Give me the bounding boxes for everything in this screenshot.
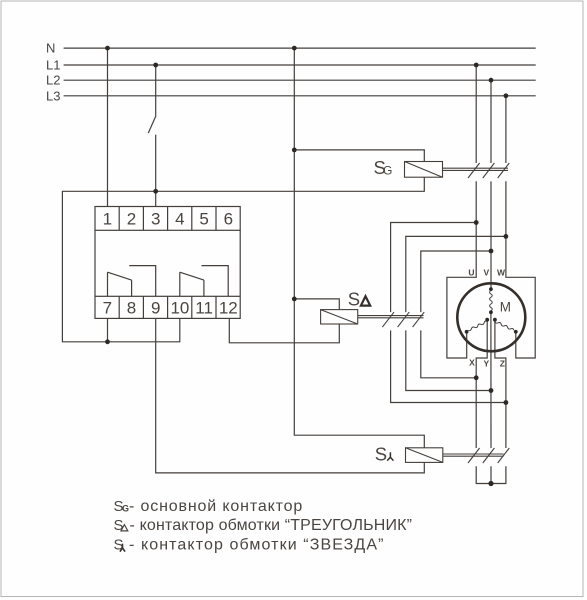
wire S-lambda coil bottom to terminal 9 (156, 318, 425, 473)
node winding W outer (514, 330, 518, 334)
node delta-X tie (474, 375, 479, 380)
node winding V top (489, 287, 493, 291)
contact slash Sd-2 (398, 312, 410, 327)
contactor coil SG (405, 162, 510, 179)
contactor coil S-lambda (406, 448, 510, 463)
relay contact 10-11-12 bracket to 12 (202, 266, 229, 297)
wire motor X lead with jog (476, 321, 487, 448)
wire terminal 1 drop from N (107, 48, 109, 206)
node delta-U tie (474, 220, 479, 225)
wire star bar middle stub (490, 466, 492, 483)
motor winding W squiggle (495, 321, 514, 330)
relay contact 7-8-9 stub 8 (131, 280, 133, 296)
node N-feeder (292, 46, 297, 51)
node delta-Y tie (489, 388, 494, 393)
wire phase V below SG contact into motor (490, 181, 492, 289)
wire S-delta coil bottom to terminal 12 (229, 318, 339, 342)
svg-text:L3: L3 (46, 88, 60, 103)
svg-text:Z: Z (500, 359, 505, 369)
node delta-Z tie (504, 400, 509, 405)
svg-text:L1: L1 (46, 58, 60, 73)
wire S-lambda star stubs and shorting bar (476, 466, 506, 483)
terminal numbers 7-12 (103, 299, 238, 318)
svg-text:10: 10 (170, 299, 189, 318)
svg-text:U: U (468, 268, 474, 278)
svg-text:8: 8 (127, 299, 136, 318)
svg-text:W: W (497, 268, 506, 278)
linkage S-delta (358, 315, 424, 317)
terminal dividers bottom row (118, 296, 120, 318)
svg-text:2: 2 (127, 210, 136, 229)
contact slash Sd-1 (382, 312, 394, 327)
node winding V bottom (489, 310, 493, 314)
svg-text:11: 11 (195, 299, 213, 318)
svg-text:S: S (348, 289, 360, 310)
wire L2 rail (64, 79, 536, 81)
relay contact 7-8-9 stub 7 (107, 272, 109, 296)
wire terminal 3 drop from L1 upper segment (155, 65, 157, 116)
svg-text:4: 4 (175, 210, 184, 229)
wire left enclosure run: terminal10/7 to SG-return rail (62, 177, 424, 342)
svg-text:9: 9 (151, 299, 160, 318)
svg-text:V: V (483, 268, 489, 278)
lambda (inverted Y) symbol (387, 452, 393, 460)
svg-text:L2: L2 (46, 73, 60, 88)
wire S-delta coil top feed (294, 299, 339, 310)
svg-text:N: N (46, 41, 55, 56)
wire terminal 7 lead (107, 318, 109, 341)
contact slash SG-W (498, 163, 510, 178)
svg-text:- контактор обмотки “ЗВЕЗДА”: - контактор обмотки “ЗВЕЗДА” (129, 536, 385, 553)
relay contact 10-11-12 stub 11 (203, 280, 205, 296)
svg-text:G: G (122, 504, 129, 514)
svg-text:5: 5 (199, 210, 208, 229)
svg-text:- контактор обмотки “ТРЕУГОЛЬН: - контактор обмотки “ТРЕУГОЛЬНИК” (130, 517, 413, 534)
svg-text:1: 1 (103, 210, 112, 229)
wire S-delta tie W (406, 236, 506, 312)
wire S-delta tie U (391, 223, 477, 313)
svg-text:- основной контактор: - основной контактор (129, 498, 303, 515)
node winding W inner (493, 318, 497, 322)
svg-text:7: 7 (103, 299, 112, 318)
wire phase W below SG contact with right turn to motor bracket (506, 181, 535, 358)
wire L3 rail (64, 95, 536, 97)
linkage S-lambda (443, 453, 504, 455)
contact slash Sl-1 (468, 448, 480, 463)
relay module FR outline body (95, 207, 240, 319)
wire SG contact column W from L3 (505, 96, 507, 163)
wire S-delta lower middle column to Y (406, 330, 491, 390)
wire SG coil top feed (294, 150, 424, 162)
terminal numbers 1-6 (103, 210, 233, 229)
relay contact 7-8-9 blade (108, 272, 132, 280)
wire SG contact column V from L2 (490, 80, 492, 163)
wire S-delta lower right column to X (421, 330, 476, 377)
node terminal7 junction (105, 339, 110, 344)
node delta-V tie (489, 249, 494, 254)
node L3-W (504, 93, 509, 98)
svg-text:12: 12 (219, 299, 238, 318)
contact slash Sl-2 (483, 448, 495, 463)
contact slash Sl-3 (498, 448, 510, 463)
switch main disconnect blade (148, 116, 156, 133)
relay contact 7-8-9 bracket to 9 (129, 266, 155, 297)
svg-text:3: 3 (151, 210, 160, 229)
node L1-U (474, 63, 479, 68)
svg-text:S: S (375, 443, 387, 464)
motor M circle (457, 283, 525, 351)
delta symbol filled (361, 296, 370, 305)
relay contact 10-11-12 stub 10 (179, 272, 181, 296)
node S-delta feed tap (292, 297, 297, 302)
node winding U inner (485, 318, 489, 322)
relay contact 10-11-12 blade (180, 272, 204, 280)
terminal dividers top row (118, 207, 120, 231)
wire S-delta lower left column to Z (391, 330, 506, 402)
svg-text:X: X (469, 358, 475, 368)
node terminal3 junction (153, 189, 158, 194)
node N-terminal1 (105, 46, 110, 51)
wire S-delta tie V (421, 251, 491, 312)
node star point (488, 481, 493, 486)
contact slash Sd-3 (413, 312, 425, 327)
node L2-V (489, 78, 494, 83)
motor winding U squiggle (468, 321, 487, 331)
wire N feeder vertical (294, 48, 424, 448)
node winding U outer (465, 330, 469, 334)
wire terminal 3 drop lower segment (155, 135, 157, 207)
contact slash SG-V (483, 163, 495, 178)
motor winding V squiggle (490, 291, 493, 311)
node SG feed tap (292, 148, 297, 153)
wire phase U below SG contact with left turn to motor bracket (447, 181, 476, 358)
node L1-switch (153, 63, 158, 68)
contact slash SG-U (468, 163, 480, 178)
node delta-W tie (504, 234, 509, 239)
svg-text:Y: Y (483, 359, 489, 369)
svg-text:6: 6 (224, 210, 233, 229)
wire motor Z lead with jog (495, 321, 506, 448)
wire SG contact column U from L1 (475, 65, 477, 163)
svg-text:M: M (500, 299, 511, 314)
wire N rail (64, 47, 536, 49)
contactor coil S-delta (321, 310, 425, 328)
wire motor Y lead (490, 312, 492, 448)
wire L1 rail (64, 64, 536, 66)
linkage SG (443, 167, 509, 169)
svg-text:G: G (383, 163, 392, 177)
